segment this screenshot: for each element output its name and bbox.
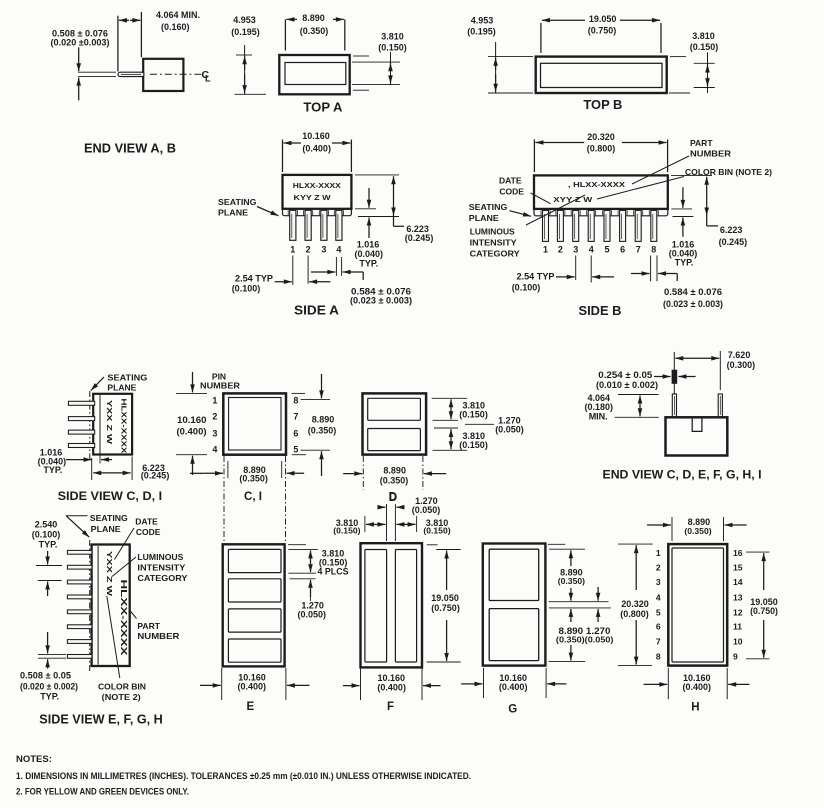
svg-text:(0.150): (0.150) xyxy=(378,43,407,53)
svg-text:TYP.: TYP. xyxy=(40,692,59,702)
svg-text:TOP B: TOP B xyxy=(583,98,622,112)
svg-text:3.810: 3.810 xyxy=(381,31,404,41)
svg-text:2.54 TYP: 2.54 TYP xyxy=(517,272,555,282)
svg-text:(0.400): (0.400) xyxy=(177,427,207,437)
svg-text:0.584 ± 0.076: 0.584 ± 0.076 xyxy=(664,287,722,297)
svg-text:(NOTE 2): (NOTE 2) xyxy=(102,692,141,702)
svg-text:(0.750): (0.750) xyxy=(750,606,778,616)
svg-text:NUMBER: NUMBER xyxy=(690,149,731,159)
svg-text:TYP.: TYP. xyxy=(39,540,58,550)
svg-text:16: 16 xyxy=(733,548,743,558)
svg-text:2.54 TYP: 2.54 TYP xyxy=(235,273,273,283)
svg-text:NUMBER: NUMBER xyxy=(200,381,240,391)
svg-text:PLANE: PLANE xyxy=(107,383,136,393)
svg-text:10.160: 10.160 xyxy=(177,415,207,425)
svg-text:12: 12 xyxy=(733,607,743,617)
svg-text:(0.050): (0.050) xyxy=(412,505,441,515)
svg-text:19.050: 19.050 xyxy=(431,593,459,603)
svg-text:(0.750): (0.750) xyxy=(431,603,460,613)
svg-text:(0.300): (0.300) xyxy=(727,360,756,370)
svg-text:6: 6 xyxy=(656,622,661,632)
svg-text:END VIEW C, D, E, F, G, H, I: END VIEW C, D, E, F, G, H, I xyxy=(603,467,762,481)
svg-text:TYP.: TYP. xyxy=(359,259,378,269)
svg-text:D: D xyxy=(389,492,397,504)
svg-text:(0.750): (0.750) xyxy=(588,26,617,36)
svg-text:TYP.: TYP. xyxy=(43,465,62,475)
svg-text:KYY Z W: KYY Z W xyxy=(294,193,332,202)
svg-text:3: 3 xyxy=(573,245,578,255)
svg-text:(0.150): (0.150) xyxy=(423,526,450,536)
svg-text:TOP A: TOP A xyxy=(303,101,342,115)
svg-text:E: E xyxy=(246,701,254,713)
svg-text:HLXX-XXXX: HLXX-XXXX xyxy=(119,580,128,657)
svg-text:XYY Z W: XYY Z W xyxy=(553,195,593,204)
svg-text:13: 13 xyxy=(733,592,743,602)
svg-text:YXX Z W: YXX Z W xyxy=(105,551,114,597)
svg-text:PLANE: PLANE xyxy=(469,213,499,223)
svg-text:(0.800): (0.800) xyxy=(587,144,616,154)
svg-text:4: 4 xyxy=(589,245,594,255)
svg-text:H: H xyxy=(691,701,699,713)
svg-text:2: 2 xyxy=(558,245,563,255)
svg-text:3: 3 xyxy=(212,429,217,439)
svg-text:SEATING: SEATING xyxy=(107,373,147,383)
svg-text:PART: PART xyxy=(137,621,160,631)
svg-text:LUMINOUS: LUMINOUS xyxy=(137,552,183,562)
svg-text:3: 3 xyxy=(656,577,661,587)
svg-text:(0.400): (0.400) xyxy=(377,682,406,692)
svg-text:(0.050): (0.050) xyxy=(298,609,327,619)
svg-text:10.160: 10.160 xyxy=(302,131,330,141)
svg-text:MIN.: MIN. xyxy=(589,411,608,421)
svg-text:(0.800): (0.800) xyxy=(620,609,649,619)
svg-text:6.223: 6.223 xyxy=(720,225,743,235)
svg-text:8.890: 8.890 xyxy=(302,13,325,23)
svg-text:SIDE B: SIDE B xyxy=(579,304,622,318)
svg-text:TYP.: TYP. xyxy=(675,258,694,268)
svg-text:, HLXX-XXXX: , HLXX-XXXX xyxy=(568,180,625,189)
svg-text:3.810: 3.810 xyxy=(692,31,715,41)
svg-text:SEATING: SEATING xyxy=(469,202,508,212)
svg-text:(0.350): (0.350) xyxy=(300,26,329,36)
svg-text:G: G xyxy=(508,704,517,716)
svg-text:NUMBER: NUMBER xyxy=(137,631,179,641)
svg-text:(0.245): (0.245) xyxy=(141,471,170,481)
svg-text:2: 2 xyxy=(656,562,661,572)
svg-text:PART: PART xyxy=(690,138,713,148)
svg-text:(0.150): (0.150) xyxy=(333,526,360,536)
svg-text:INTENSITY: INTENSITY xyxy=(470,238,517,248)
svg-text:7: 7 xyxy=(293,412,298,422)
svg-text:5: 5 xyxy=(656,607,661,617)
svg-text:(0.100): (0.100) xyxy=(232,284,261,294)
svg-text:(0.245): (0.245) xyxy=(719,237,748,247)
svg-text:4.064 MIN.: 4.064 MIN. xyxy=(156,10,200,20)
svg-text:(0.350): (0.350) xyxy=(380,475,409,485)
svg-text:2: 2 xyxy=(306,245,311,255)
svg-text:(0.400): (0.400) xyxy=(499,682,528,692)
svg-text:(0.023 ± 0.003): (0.023 ± 0.003) xyxy=(350,296,412,306)
svg-text:0.508 ± 0.05: 0.508 ± 0.05 xyxy=(20,670,71,680)
svg-text:0.254 ± 0.05: 0.254 ± 0.05 xyxy=(598,370,652,380)
svg-text:7: 7 xyxy=(636,245,641,255)
svg-text:4.953: 4.953 xyxy=(471,16,494,26)
svg-text:CODE: CODE xyxy=(136,527,161,537)
svg-text:(0.160): (0.160) xyxy=(161,22,190,32)
svg-text:PLANE: PLANE xyxy=(91,524,121,534)
svg-text:11: 11 xyxy=(733,622,742,632)
svg-text:20.320: 20.320 xyxy=(621,599,649,609)
svg-text:1: 1 xyxy=(543,245,548,255)
svg-text:2. FOR YELLOW AND GREEN DEVICE: 2. FOR YELLOW AND GREEN DEVICES ONLY. xyxy=(16,786,189,797)
svg-text:(0.400): (0.400) xyxy=(302,144,331,154)
svg-text:1: 1 xyxy=(290,245,295,255)
svg-text:PLANE: PLANE xyxy=(218,208,248,218)
svg-text:(0.400): (0.400) xyxy=(238,682,267,692)
svg-text:7.620: 7.620 xyxy=(728,350,751,360)
svg-text:(0.350): (0.350) xyxy=(308,426,337,436)
svg-text:(0.150): (0.150) xyxy=(690,42,719,52)
svg-text:END VIEW A, B: END VIEW A, B xyxy=(84,142,176,156)
svg-text:C, I: C, I xyxy=(244,491,262,503)
svg-text:5: 5 xyxy=(604,245,609,255)
svg-text:14: 14 xyxy=(733,577,743,587)
svg-text:CODE: CODE xyxy=(499,187,524,197)
svg-text:YXX Z W: YXX Z W xyxy=(105,400,112,445)
svg-text:10: 10 xyxy=(733,636,743,646)
svg-text:9: 9 xyxy=(733,651,738,661)
svg-text:20.320: 20.320 xyxy=(587,132,615,142)
svg-text:(0.195): (0.195) xyxy=(231,27,260,37)
svg-text:1. DIMENSIONS IN MILLIMETRES (: 1. DIMENSIONS IN MILLIMETRES (INCHES). T… xyxy=(16,771,471,782)
svg-text:4: 4 xyxy=(212,445,217,455)
svg-text:(0.350): (0.350) xyxy=(558,576,585,586)
svg-text:8: 8 xyxy=(293,396,298,406)
svg-text:1: 1 xyxy=(656,548,661,558)
svg-text:LUMINOUS: LUMINOUS xyxy=(470,227,515,237)
svg-text:DATE: DATE xyxy=(499,176,522,186)
svg-text:SIDE A: SIDE A xyxy=(294,304,339,318)
svg-text:(0.150): (0.150) xyxy=(459,410,488,420)
svg-text:5: 5 xyxy=(293,445,298,455)
svg-text:SIDE VIEW C, D, I: SIDE VIEW C, D, I xyxy=(58,489,163,503)
svg-text:4 PLCS: 4 PLCS xyxy=(318,566,349,576)
svg-text:(0.100): (0.100) xyxy=(512,283,541,293)
svg-text:3: 3 xyxy=(321,245,326,255)
svg-text:(0.100): (0.100) xyxy=(32,530,61,540)
svg-text:(0.350): (0.350) xyxy=(239,474,268,484)
svg-text:19.050: 19.050 xyxy=(589,14,617,24)
svg-text:(0.040): (0.040) xyxy=(355,249,384,259)
svg-text:(0.020 ± 0.002): (0.020 ± 0.002) xyxy=(20,681,78,691)
svg-text:4: 4 xyxy=(336,245,341,255)
svg-text:(0.245): (0.245) xyxy=(405,233,434,243)
svg-text:HLXX-XXXX: HLXX-XXXX xyxy=(120,399,127,454)
svg-text:(0.050): (0.050) xyxy=(495,425,524,435)
svg-text:(0.023 ± 0.003): (0.023 ± 0.003) xyxy=(663,299,723,309)
svg-text:6: 6 xyxy=(620,245,625,255)
svg-text:DATE: DATE xyxy=(135,517,158,527)
svg-text:2: 2 xyxy=(212,412,217,422)
svg-text:NOTES:: NOTES: xyxy=(16,754,52,765)
svg-text:SEATING: SEATING xyxy=(90,513,128,523)
svg-text:CATEGORY: CATEGORY xyxy=(470,249,520,259)
svg-text:(0.150): (0.150) xyxy=(459,440,488,450)
svg-text:4: 4 xyxy=(656,592,661,602)
svg-text:8.890: 8.890 xyxy=(383,466,406,476)
svg-text:COLOR BIN: COLOR BIN xyxy=(98,682,146,692)
svg-text:1.016: 1.016 xyxy=(357,240,380,250)
svg-text:F: F xyxy=(387,701,394,713)
svg-text:SIDE VIEW E, F, G, H: SIDE VIEW E, F, G, H xyxy=(39,713,163,727)
svg-text:1: 1 xyxy=(212,396,217,406)
svg-text:INTENSITY: INTENSITY xyxy=(137,563,185,573)
svg-text:(0.020 ±0.003): (0.020 ±0.003) xyxy=(51,38,110,48)
svg-text:CATEGORY: CATEGORY xyxy=(137,573,187,583)
svg-text:4.953: 4.953 xyxy=(233,15,256,25)
svg-text:8: 8 xyxy=(656,651,661,661)
svg-text:8.890: 8.890 xyxy=(312,415,335,425)
svg-text:SEATING: SEATING xyxy=(218,197,257,207)
svg-text:(0.350)(0.050): (0.350)(0.050) xyxy=(556,634,614,644)
svg-text:HLXX-XXXX: HLXX-XXXX xyxy=(293,181,341,190)
svg-text:7: 7 xyxy=(656,636,661,646)
svg-text:15: 15 xyxy=(733,562,743,572)
svg-text:(0.400): (0.400) xyxy=(683,682,712,692)
svg-text:8: 8 xyxy=(651,245,656,255)
svg-text:2.540: 2.540 xyxy=(35,520,58,530)
svg-text:(0.010 ± 0.002): (0.010 ± 0.002) xyxy=(596,380,658,390)
svg-text:(0.195): (0.195) xyxy=(467,27,496,37)
svg-text:L: L xyxy=(205,74,211,84)
svg-text:(0.350): (0.350) xyxy=(684,526,711,536)
svg-text:6: 6 xyxy=(293,429,298,439)
